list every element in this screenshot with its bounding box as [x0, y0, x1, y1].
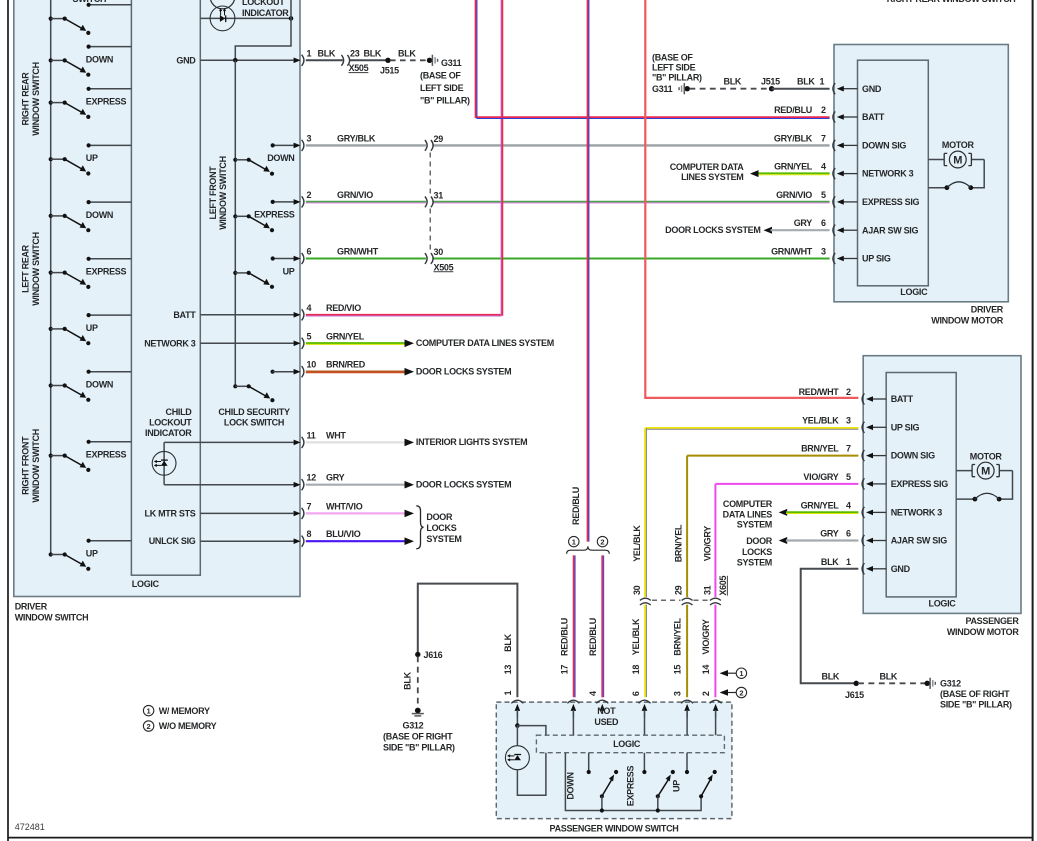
driver window switch box [14, 0, 300, 622]
labels YEL/BLK BRN/YEL VIO/GRY above X605 [632, 524, 712, 562]
svg-text:DATA LINES: DATA LINES [723, 509, 773, 519]
svg-text:DOOR LOCKS SYSTEM: DOOR LOCKS SYSTEM [665, 225, 760, 235]
svg-text:18: 18 [631, 665, 641, 675]
svg-text:2: 2 [739, 688, 743, 697]
svg-text:6: 6 [631, 691, 641, 696]
svg-text:LOCK SWITCH: LOCK SWITCH [224, 417, 284, 427]
svg-text:7: 7 [307, 501, 312, 511]
svg-text:DRIVER: DRIVER [971, 304, 1004, 314]
svg-text:G312: G312 [403, 721, 424, 731]
switch right front DOWN [49, 370, 132, 402]
svg-text:M: M [981, 466, 990, 478]
svg-text:4: 4 [821, 162, 826, 172]
svg-text:14: 14 [701, 665, 711, 675]
svg-text:G312: G312 [940, 679, 961, 689]
svg-text:X505: X505 [349, 63, 369, 73]
svg-text:1: 1 [307, 48, 312, 58]
svg-text:W/ MEMORY: W/ MEMORY [159, 706, 210, 716]
svg-text:3: 3 [821, 247, 826, 257]
svg-text:DOWN: DOWN [86, 210, 113, 220]
label GRN/YEL 4 (passenger motor) [801, 500, 851, 510]
switch left rear DOWN [49, 200, 132, 232]
passenger switch indicator LED [505, 726, 546, 796]
label right front window switch [21, 429, 41, 503]
svg-text:GRY: GRY [820, 529, 839, 539]
wire VIO/GRY to passenger motor express sig [715, 484, 858, 697]
pin 4 label RED/VIO [307, 303, 362, 313]
svg-text:8: 8 [307, 529, 312, 539]
svg-text:6: 6 [846, 529, 851, 539]
svg-text:31: 31 [434, 190, 444, 200]
svg-text:1: 1 [739, 669, 743, 678]
svg-text:WINDOW SWITCH: WINDOW SWITCH [31, 62, 41, 136]
svg-text:5: 5 [846, 472, 851, 482]
svg-text:COMPUTER DATA: COMPUTER DATA [670, 162, 745, 172]
wire GRN/YEL pin5 to computer data lines system [306, 338, 554, 348]
svg-text:GND: GND [176, 55, 196, 65]
brace door locks system [416, 506, 461, 549]
svg-text:GRY: GRY [326, 473, 345, 483]
driver motor M symbol [928, 140, 984, 190]
svg-text:UP SIG: UP SIG [891, 422, 920, 432]
svg-text:CHILD: CHILD [166, 407, 193, 417]
svg-text:LINES SYSTEM: LINES SYSTEM [681, 172, 743, 182]
wire BLK passenger motor gnd to J615 to G312 [801, 569, 936, 689]
svg-text:BRN/YEL: BRN/YEL [674, 524, 684, 562]
svg-text:NETWORK 3: NETWORK 3 [144, 338, 196, 348]
svg-text:LEFT REAR: LEFT REAR [21, 244, 31, 293]
left switch bus wire [50, 0, 52, 556]
svg-text:LEFT FRONT: LEFT FRONT [208, 166, 218, 220]
svg-text:1: 1 [147, 707, 151, 716]
pin 10 label BRN/RED [307, 360, 366, 370]
svg-text:GRN/WHT: GRN/WHT [337, 247, 379, 257]
wire GRN/WHT pin6 to driver motor up sig [306, 258, 830, 260]
svg-text:LOGIC: LOGIC [929, 599, 957, 609]
svg-text:RIGHT REAR: RIGHT REAR [21, 72, 31, 126]
passenger motor pin NETWORK 3 [862, 507, 942, 518]
svg-text:"B" PILLAR): "B" PILLAR) [420, 96, 470, 106]
svg-text:INTERIOR LIGHTS SYSTEM: INTERIOR LIGHTS SYSTEM [416, 437, 527, 447]
svg-text:LOGIC: LOGIC [132, 579, 160, 589]
wire RED/BLU battery feed to driver motor [476, 0, 830, 119]
svg-text:W/O MEMORY: W/O MEMORY [159, 721, 217, 731]
driver motor logic box [858, 60, 929, 297]
svg-text:NETWORK 3: NETWORK 3 [862, 169, 914, 179]
svg-text:GRY/BLK: GRY/BLK [774, 133, 813, 143]
wire RED/BLU branch 1 to passenger switch pin 17 [574, 555, 575, 697]
svg-text:LOCKOUT: LOCKOUT [149, 417, 192, 427]
svg-text:29: 29 [674, 585, 684, 595]
wire GRN/YEL network3 to computer data lines (passenger) [723, 499, 859, 530]
svg-text:13: 13 [503, 665, 513, 675]
svg-text:30: 30 [434, 247, 444, 257]
svg-text:DOOR LOCKS SYSTEM: DOOR LOCKS SYSTEM [416, 480, 511, 490]
svg-text:BLK: BLK [797, 77, 815, 87]
label RED/WHT 2 (passenger motor) [799, 387, 851, 397]
labels BLK J615 BLK (passenger gnd) [822, 671, 898, 700]
svg-text:UP: UP [86, 323, 98, 333]
switch right front UP [49, 539, 132, 571]
svg-text:RED/VIO: RED/VIO [326, 303, 361, 313]
label right rear window switch [21, 62, 41, 136]
svg-text:BRN/RED: BRN/RED [326, 360, 366, 370]
switch left front UP [233, 256, 295, 289]
svg-text:LOCKOUT: LOCKOUT [242, 0, 285, 7]
driver switch logic box [131, 0, 200, 589]
wire RED/BLU branch 2 to passenger switch pin 4 [602, 555, 603, 697]
wire GRN/YEL network 3 to computer data lines (driver motor) [670, 162, 830, 182]
labels J616 BLK G312 [383, 650, 455, 752]
svg-text:VIO/GRY: VIO/GRY [803, 472, 838, 482]
pin 5 label GRN/YEL [307, 331, 365, 341]
driver motor pin DOWN SIG [833, 140, 906, 151]
svg-text:WHT: WHT [326, 430, 346, 440]
labels 18 6 (yel/blk into passenger switch) [631, 665, 641, 696]
svg-text:VIO/GRY: VIO/GRY [702, 526, 712, 561]
svg-text:BLK: BLK [821, 557, 839, 567]
diagram number 472481 [15, 822, 45, 832]
svg-text:X605: X605 [718, 576, 728, 596]
wire GRY ajar to door locks (passenger) [737, 536, 859, 567]
label BRN/YEL 7 (passenger motor) [801, 444, 851, 454]
memory variant fork brace [567, 546, 610, 553]
wire GRN/VIO pin2 to driver motor express sig [306, 202, 830, 203]
wire from lockout indicator to GND node [235, 0, 291, 60]
svg-text:11: 11 [307, 430, 316, 440]
labels 15 3 (brn/yel into passenger switch) [672, 665, 682, 696]
svg-text:(BASE OF: (BASE OF [420, 71, 461, 81]
circled 2 arrow at vio/gry wire [720, 687, 747, 697]
svg-text:12: 12 [307, 473, 317, 483]
svg-text:BLK: BLK [724, 77, 742, 87]
svg-text:2: 2 [147, 722, 151, 731]
svg-text:G311: G311 [652, 84, 673, 94]
svg-text:GRN/WHT: GRN/WHT [771, 247, 813, 257]
svg-text:3: 3 [672, 691, 682, 696]
switch left rear EXPRESS [49, 257, 132, 289]
svg-text:EXPRESS: EXPRESS [86, 450, 127, 460]
svg-text:LK MTR STS: LK MTR STS [145, 508, 196, 518]
wire RED/VIO pin4 battery feed [306, 0, 503, 316]
svg-text:CHILD SECURITY: CHILD SECURITY [218, 407, 290, 417]
label VIO/GRY 5 (passenger motor) [803, 472, 851, 482]
svg-text:G311: G311 [441, 58, 462, 68]
svg-text:DOOR: DOOR [746, 536, 773, 546]
svg-text:SIDE "B" PILLAR): SIDE "B" PILLAR) [940, 699, 1012, 709]
wire BLK G311 to driver motor gnd [679, 83, 830, 94]
wire WHT/VIO pin7 lk mtr sts [306, 510, 414, 518]
svg-text:WINDOW MOTOR: WINDOW MOTOR [931, 315, 1004, 325]
switch right rear (top, cut) [49, 3, 132, 35]
label G312 base of right side B pillar (right) [940, 679, 1012, 710]
labels BLK 13 1 (passenger switch pin1) [503, 633, 513, 695]
passenger motor pin AJAR SW SIG [862, 535, 947, 546]
svg-text:INDICATOR: INDICATOR [145, 428, 192, 438]
svg-text:DOWN SIG: DOWN SIG [862, 141, 906, 151]
svg-text:UP: UP [283, 266, 295, 276]
switch right rear DOWN [49, 45, 132, 77]
labels RED/BLU 4 (passenger switch) [588, 618, 598, 696]
inline connector X605 wires 30 29 31 [632, 576, 728, 605]
wire BRN/YEL to passenger motor down sig [687, 456, 858, 698]
label GRY 6 (driver motor) [794, 218, 826, 228]
svg-text:EXPRESS SIG: EXPRESS SIG [862, 197, 920, 207]
svg-text:AJAR SW SIG: AJAR SW SIG [891, 536, 948, 546]
svg-text:VIO/GRY: VIO/GRY [701, 619, 711, 654]
svg-text:29: 29 [434, 134, 444, 144]
svg-text:YEL/BLK: YEL/BLK [632, 525, 642, 562]
svg-text:31: 31 [702, 585, 712, 595]
passenger switch UP switch [671, 753, 717, 799]
svg-text:EXPRESS: EXPRESS [254, 210, 295, 220]
wire WHT pin11 to interior lights system [306, 437, 528, 447]
label RED/BLU 2 (driver motor) [774, 105, 826, 115]
driver switch connector pins [294, 55, 304, 547]
svg-text:472481: 472481 [15, 822, 45, 832]
svg-text:LEFT SIDE: LEFT SIDE [420, 83, 464, 93]
wire LK MTR STS inside driver switch [145, 508, 294, 518]
svg-text:DOWN SIG: DOWN SIG [891, 451, 935, 461]
label GRN/WHT 3 (driver motor) [771, 247, 826, 257]
svg-text:DOWN: DOWN [566, 772, 576, 799]
svg-text:RED/BLU: RED/BLU [559, 618, 569, 656]
wire NETWORK 3 inside driver switch [144, 338, 294, 348]
passenger motor M symbol [956, 451, 1012, 501]
svg-text:LOGIC: LOGIC [900, 287, 928, 297]
switch right rear UP [49, 143, 132, 175]
svg-text:2: 2 [701, 691, 711, 696]
svg-text:7: 7 [846, 444, 851, 454]
pin 6 label GRN/WHT [307, 247, 379, 257]
label G311 base of left side B pillar [420, 71, 470, 106]
clipped label RIGHT REAR WINDOW SWITCH (top cut off) [887, 0, 1016, 4]
svg-text:COMPUTER DATA LINES SYSTEM: COMPUTER DATA LINES SYSTEM [416, 338, 554, 348]
svg-text:BLK: BLK [822, 671, 840, 681]
svg-text:DOWN: DOWN [86, 380, 113, 390]
svg-text:BLK: BLK [318, 48, 336, 58]
svg-text:GND: GND [862, 84, 882, 94]
wire RED/WHT feed to passenger motor [645, 0, 858, 398]
svg-text:2: 2 [600, 538, 604, 547]
svg-text:COMPUTER: COMPUTER [723, 499, 773, 509]
svg-text:WINDOW SWITCH: WINDOW SWITCH [31, 429, 41, 503]
pin 8 label BLU/VIO [307, 529, 361, 539]
child lockout indicator LED [145, 407, 192, 485]
label G311 left side B pillar (driver motor) [652, 53, 702, 95]
svg-text:BLK: BLK [503, 633, 513, 651]
pin 1 label BLK [307, 48, 336, 58]
driver motor pin EXPRESS SIG [833, 196, 920, 207]
svg-text:WINDOW MOTOR: WINDOW MOTOR [947, 627, 1020, 637]
svg-text:RIGHT REAR WINDOW SWITCH: RIGHT REAR WINDOW SWITCH [887, 0, 1016, 4]
passenger switch top connector pins [511, 700, 721, 717]
svg-text:DOOR: DOOR [426, 512, 453, 522]
svg-text:1: 1 [572, 538, 576, 547]
label GRN/VIO 5 (driver motor) [776, 190, 826, 200]
label NOT USED [594, 706, 619, 727]
svg-text:BATT: BATT [173, 310, 196, 320]
clipped label SWITCH (top cut off) [73, 0, 107, 4]
label 23 BLK X505 J515 G311 [349, 48, 462, 75]
label GRY 6 (passenger motor) [820, 529, 851, 539]
svg-text:4: 4 [846, 500, 851, 510]
svg-text:RED/WHT: RED/WHT [799, 387, 840, 397]
svg-text:6: 6 [307, 247, 312, 257]
svg-text:BATT: BATT [862, 112, 885, 122]
svg-text:NOT: NOT [597, 706, 616, 716]
svg-text:BATT: BATT [891, 394, 914, 404]
svg-text:GRN/YEL: GRN/YEL [774, 162, 813, 172]
wire child security to pin 10 [273, 371, 294, 373]
svg-text:23: 23 [350, 48, 360, 58]
wire RED/BLU center feed [571, 0, 589, 542]
svg-text:BLU/VIO: BLU/VIO [326, 529, 361, 539]
labels YEL/BLK BRN/YEL VIO/GRY below X605 [631, 617, 711, 655]
passenger motor pin GND [862, 563, 911, 574]
wire GRY ajar sw sig to door locks system (driver motor) [665, 225, 829, 235]
legend w/o memory [143, 721, 216, 731]
svg-text:M: M [953, 155, 962, 167]
svg-text:LOGIC: LOGIC [613, 739, 641, 749]
svg-text:X505: X505 [434, 262, 454, 272]
svg-text:(BASE OF RIGHT: (BASE OF RIGHT [383, 732, 453, 742]
svg-text:(BASE OF RIGHT: (BASE OF RIGHT [940, 689, 1010, 699]
svg-text:10: 10 [307, 360, 317, 370]
passenger motor logic box [886, 373, 956, 609]
svg-text:2: 2 [821, 105, 826, 115]
svg-text:SYSTEM: SYSTEM [737, 520, 772, 530]
svg-text:1: 1 [820, 77, 825, 87]
svg-text:J615: J615 [845, 690, 864, 700]
svg-text:1: 1 [846, 557, 851, 567]
passenger motor pin UP SIG [862, 422, 919, 433]
svg-text:DOWN: DOWN [267, 153, 294, 163]
svg-text:WINDOW SWITCH: WINDOW SWITCH [31, 232, 41, 306]
svg-text:MOTOR: MOTOR [970, 451, 1003, 461]
svg-text:YEL/BLK: YEL/BLK [631, 618, 641, 655]
wire child lockout to pin 12 [164, 484, 294, 486]
switch left front EXPRESS [233, 200, 295, 233]
svg-text:4: 4 [307, 303, 312, 313]
label YEL/BLK 3 (passenger motor) [802, 415, 851, 425]
svg-text:BLK: BLK [398, 48, 416, 58]
wire BLU/VIO pin8 unlck sig [306, 537, 414, 545]
pin 7 label WHT/VIO [307, 501, 363, 511]
passenger window motor box [863, 356, 1021, 637]
svg-text:WINDOW SWITCH: WINDOW SWITCH [15, 612, 89, 622]
switch left front DOWN [233, 143, 294, 176]
svg-text:YEL/BLK: YEL/BLK [802, 415, 839, 425]
child security lock switch [218, 370, 294, 428]
svg-text:UP: UP [86, 153, 98, 163]
svg-text:5: 5 [821, 190, 826, 200]
svg-text:LEFT SIDE: LEFT SIDE [652, 63, 696, 73]
svg-text:"B" PILLAR): "B" PILLAR) [652, 73, 702, 83]
legend w/ memory [143, 705, 210, 715]
svg-text:BLK: BLK [364, 48, 382, 58]
svg-text:SYSTEM: SYSTEM [737, 558, 772, 568]
wire GRY pin12 to door locks system [306, 480, 512, 490]
switch left rear UP [49, 313, 132, 345]
left front switch bus wire [234, 60, 236, 386]
passenger switch internal wires to logic [515, 710, 715, 735]
label GRY/BLK 7 (driver motor) [774, 133, 826, 143]
passenger switch EXPRESS switch [625, 753, 675, 807]
svg-text:PASSENGER: PASSENGER [965, 616, 1019, 626]
svg-text:BLK: BLK [402, 671, 412, 689]
lockout indicator LED [200, 0, 293, 31]
svg-text:RED/BLU: RED/BLU [588, 618, 598, 656]
wire YEL/BLK to passenger motor up sig [645, 428, 858, 697]
svg-text:DOOR LOCKS SYSTEM: DOOR LOCKS SYSTEM [416, 367, 511, 377]
svg-text:15: 15 [672, 665, 682, 675]
svg-text:BRN/YEL: BRN/YEL [672, 617, 682, 655]
wire UNLCK SIG inside driver switch [149, 536, 294, 546]
svg-text:2: 2 [846, 387, 851, 397]
wire GND inside driver switch [176, 55, 293, 65]
pin 3 label GRY/BLK [307, 133, 376, 143]
inline connector X505 wires 29 31 30 [425, 134, 454, 272]
svg-text:5: 5 [307, 331, 312, 341]
svg-text:SIDE "B" PILLAR): SIDE "B" PILLAR) [383, 742, 455, 752]
wire child lockout to pin 11 [164, 441, 294, 443]
svg-text:LOCKS: LOCKS [742, 547, 772, 557]
passenger motor pin BATT [862, 393, 914, 404]
svg-text:EXPRESS: EXPRESS [86, 97, 127, 107]
label GRN/YEL 4 (driver motor) [774, 162, 826, 172]
svg-text:SYSTEM: SYSTEM [426, 534, 461, 544]
labels BLK J515 BLK 1 (driver motor gnd) [724, 77, 825, 87]
svg-text:GRN/VIO: GRN/VIO [337, 190, 373, 200]
svg-text:DOWN: DOWN [86, 54, 113, 64]
passenger window switch box [496, 702, 732, 834]
svg-text:EXPRESS: EXPRESS [625, 765, 635, 806]
circled 1 w-memory branch [569, 536, 579, 546]
switch right rear EXPRESS [49, 87, 132, 119]
passenger motor pin EXPRESS SIG [862, 478, 948, 489]
svg-text:EXPRESS SIG: EXPRESS SIG [891, 479, 949, 489]
svg-text:J616: J616 [424, 650, 443, 660]
labels 14 2 (vio/gry into passenger switch) [701, 665, 711, 696]
svg-text:3: 3 [307, 133, 312, 143]
passenger switch DOWN switch [566, 753, 619, 800]
svg-text:UNLCK SIG: UNLCK SIG [149, 536, 196, 546]
passenger motor pin DOWN SIG [862, 450, 935, 461]
wire BATT inside driver switch [173, 310, 293, 320]
pin 12 label GRY [307, 473, 345, 483]
svg-text:UP SIG: UP SIG [862, 254, 891, 264]
circled 1 arrow at vio/gry wire [720, 668, 747, 678]
svg-text:30: 30 [632, 585, 642, 595]
svg-text:GND: GND [891, 564, 911, 574]
svg-text:GRN/YEL: GRN/YEL [801, 500, 840, 510]
svg-text:7: 7 [821, 133, 826, 143]
svg-text:BLK: BLK [880, 671, 898, 681]
wire BLK passenger switch pin1 to J616 to G312 [412, 584, 518, 716]
driver motor pin AJAR SW SIG [833, 225, 919, 236]
switch right front EXPRESS [49, 440, 132, 472]
svg-text:1: 1 [503, 691, 513, 696]
svg-text:EXPRESS: EXPRESS [86, 267, 127, 277]
svg-text:GRY: GRY [794, 218, 813, 228]
wire BLK pin1 to X505 to J515 to G311 [306, 55, 438, 66]
svg-text:J515: J515 [380, 66, 399, 76]
svg-text:4: 4 [588, 691, 598, 696]
driver motor pin NETWORK 3 [833, 168, 914, 179]
pin 2 label GRN/VIO [307, 190, 374, 200]
label left rear window switch [21, 232, 41, 306]
